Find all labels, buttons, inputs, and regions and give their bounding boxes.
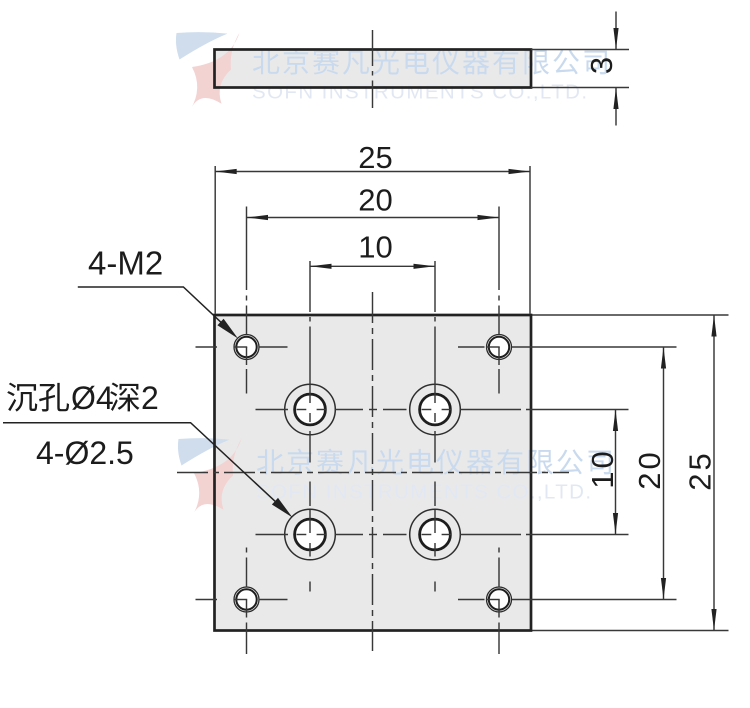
svg-text:4-M2: 4-M2 bbox=[88, 245, 163, 282]
svg-text:20: 20 bbox=[358, 183, 392, 218]
svg-text:SOFN INSTRUMENTS CO.,LTD.: SOFN INSTRUMENTS CO.,LTD. bbox=[252, 81, 588, 104]
svg-text:20: 20 bbox=[632, 449, 667, 489]
svg-text:10: 10 bbox=[585, 448, 620, 488]
svg-text:4-Ø2.5: 4-Ø2.5 bbox=[36, 435, 134, 471]
svg-text:Ø4: Ø4 bbox=[71, 380, 114, 416]
svg-text:25: 25 bbox=[683, 450, 718, 490]
svg-text:SOFN INSTRUMENTS CO.,LTD.: SOFN INSTRUMENTS CO.,LTD. bbox=[256, 481, 592, 504]
svg-text:25: 25 bbox=[358, 140, 392, 175]
svg-text:3: 3 bbox=[584, 57, 619, 74]
svg-text:10: 10 bbox=[358, 230, 392, 265]
svg-text:2: 2 bbox=[141, 380, 159, 416]
